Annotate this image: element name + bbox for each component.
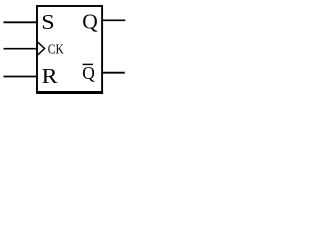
wire Q-bar output	[102, 72, 125, 74]
svg-text:CK: CK	[48, 43, 64, 58]
svg-text:S: S	[41, 10, 54, 34]
wire R input	[4, 76, 38, 78]
clock edge triangle	[38, 42, 45, 55]
flip-flop body bottom edge	[36, 91, 103, 94]
svg-text:R: R	[42, 64, 59, 88]
overbar of Q-bar	[83, 63, 94, 65]
svg-text:Q: Q	[82, 10, 98, 34]
wire S input	[4, 21, 38, 23]
svg-text:Q: Q	[82, 63, 95, 83]
wire Q output	[102, 19, 125, 21]
flip-flop body U1	[37, 6, 102, 92]
wire CK input	[4, 48, 38, 50]
